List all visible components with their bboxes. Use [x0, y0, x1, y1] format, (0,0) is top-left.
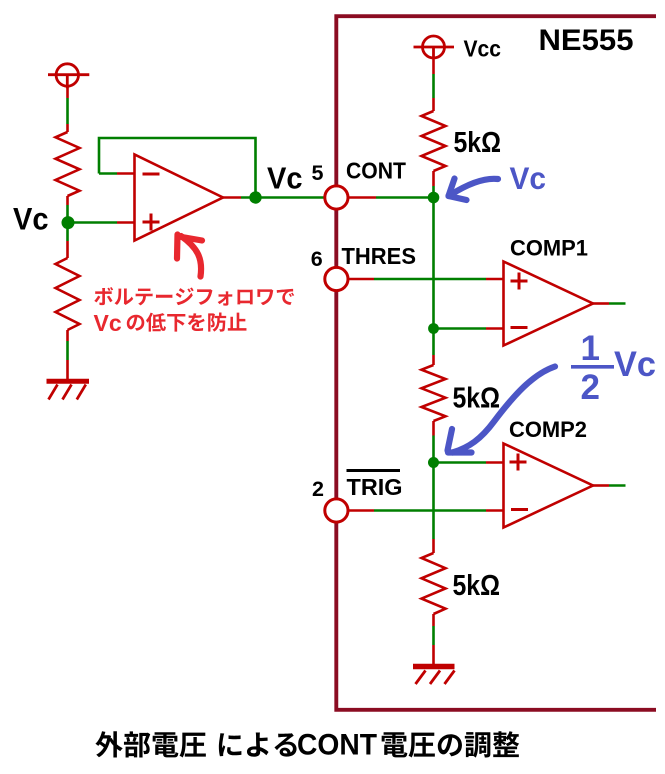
- svg-text:6: 6: [311, 247, 323, 271]
- svg-text:Vc: Vc: [94, 310, 122, 336]
- ground (inside NE555): [413, 667, 455, 685]
- wire COMP2 output: [593, 484, 626, 487]
- wire node E down to R3: [432, 463, 435, 554]
- wire COMP1 output: [593, 302, 626, 305]
- svg-text:Vc: Vc: [13, 200, 49, 236]
- pin 2 terminal circle: [325, 499, 348, 522]
- svg-text:TRIG: TRIG: [347, 474, 403, 500]
- blue arrow to node C: [449, 179, 499, 201]
- svg-text:Vc: Vc: [614, 345, 656, 384]
- wire R2 to node E: [432, 421, 435, 463]
- wire pin6 THRES to COMP1 + input: [349, 278, 504, 281]
- resistor R2 5k (middle): [422, 365, 446, 421]
- resistor R1 5k (top): [422, 111, 446, 171]
- wire node D to COMP1 - input: [434, 327, 504, 330]
- wire R1L to node A: [66, 196, 69, 223]
- svg-text:2: 2: [312, 477, 324, 501]
- svg-text:CONT: CONT: [297, 729, 377, 762]
- wire left Vcc to R1L: [66, 86, 69, 132]
- svg-text:CONT: CONT: [346, 157, 406, 183]
- wire node A to R2L: [66, 223, 69, 258]
- svg-text:Vcc: Vcc: [464, 36, 502, 62]
- Vcc supply symbol (inside NE555): [414, 36, 455, 59]
- pin 5 terminal circle: [325, 186, 348, 209]
- wire U1 output to pin 5: [223, 196, 330, 199]
- svg-text:Vc: Vc: [267, 161, 303, 196]
- svg-text:COMP2: COMP2: [509, 417, 587, 442]
- caption: [95, 731, 122, 757]
- blue curved arrow to node E: [448, 367, 556, 453]
- node A (Vc divider tap): [62, 216, 75, 229]
- node D (1/3 tap junction): [428, 323, 439, 334]
- pin 6 terminal circle: [325, 267, 348, 290]
- resistor R1L (left divider upper): [56, 132, 80, 196]
- svg-text:Vc: Vc: [510, 160, 547, 196]
- wire node C down to R2: [432, 198, 435, 366]
- feedback wire U1 output to inverting input: [99, 138, 256, 198]
- svg-text:COMP1: COMP1: [510, 236, 588, 261]
- wire U1 inverting input: [99, 172, 135, 175]
- resistor R2L (left divider lower): [56, 258, 80, 330]
- resistor R3 5k (bottom): [422, 553, 446, 614]
- svg-text:NE555: NE555: [539, 24, 634, 57]
- wire R1 to node C: [432, 171, 435, 198]
- svg-text:1: 1: [581, 329, 600, 368]
- NE555 IC boundary box U2: [336, 16, 656, 710]
- wire pin2 TRIG to COMP2 - input: [349, 509, 504, 512]
- svg-text:2: 2: [581, 368, 600, 407]
- comparator COMP1: [504, 262, 594, 346]
- svg-text:5kΩ: 5kΩ: [453, 570, 501, 602]
- wire Vcc to R1: [432, 58, 435, 111]
- svg-text:5kΩ: 5kΩ: [454, 127, 502, 159]
- svg-text:5: 5: [312, 161, 324, 185]
- svg-text:5kΩ: 5kΩ: [453, 383, 501, 415]
- blue label 1/2 Vc: [581, 329, 657, 407]
- annotation text line 1 (voltage follower): [94, 287, 113, 305]
- ground (left divider): [47, 381, 90, 399]
- node C (CONT junction): [428, 192, 440, 204]
- node E (2/3 tap junction): [428, 457, 439, 468]
- wire R3 to ground: [432, 614, 435, 664]
- Vcc supply symbol (left): [48, 64, 89, 89]
- wire pin5 CONT to node C: [349, 196, 434, 199]
- op-amp U1 voltage follower: [135, 155, 224, 241]
- comparator COMP2: [504, 444, 594, 528]
- wire R2L to ground: [66, 330, 69, 379]
- red hand-drawn arrow pointing at U1: [177, 235, 202, 277]
- wire node E to COMP2 + input: [434, 461, 504, 464]
- node B (U1 output / feedback junction): [249, 191, 261, 203]
- wire node A to U1 non-inverting input: [68, 221, 135, 224]
- svg-text:THRES: THRES: [342, 243, 417, 269]
